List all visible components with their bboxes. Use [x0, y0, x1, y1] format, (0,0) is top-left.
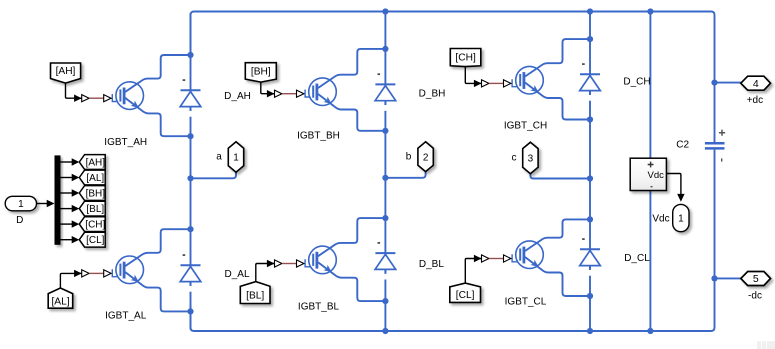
port marker out IGBT_BH [275, 90, 282, 97]
from tag [AH] for IGBT_AH [51, 63, 81, 83]
diode D_AL [180, 255, 201, 292]
svg-text:2: 2 [423, 152, 429, 163]
port marker out IGBT_CL [482, 255, 489, 262]
wire demux to goto [BH] [61, 192, 73, 194]
port 4 +dc [741, 76, 771, 90]
node IGBT_BL emitter junction [382, 298, 388, 304]
arrowhead gate wire IGBT_CH [474, 80, 482, 87]
wire -dc bottom bus and lower right rail [191, 150, 715, 331]
arrowhead demux to goto [BH] [72, 189, 80, 196]
svg-text:[AH]: [AH] [56, 66, 76, 77]
transistor IGBT_AL [112, 256, 143, 285]
arrowhead D to demux [47, 200, 55, 208]
wire phase a to port 1 [191, 171, 237, 178]
arrowhead Vdc output [677, 194, 684, 202]
wire gate red segment IGBT_CL [489, 258, 503, 260]
port marker out IGBT_AL [82, 270, 89, 277]
node top bus cap rail [647, 8, 653, 14]
svg-text:C2: C2 [676, 140, 689, 151]
transistor IGBT_CH [512, 66, 543, 95]
svg-text:D_AL: D_AL [224, 269, 249, 280]
node IGBT_BH collector junction [382, 46, 388, 52]
svg-text:[AH]: [AH] [86, 158, 106, 169]
wire collector of IGBT_AL [125, 229, 190, 266]
port 1 Vdc output [673, 204, 689, 231]
svg-text:b: b [406, 151, 412, 162]
wire demux to goto [BL] [61, 208, 73, 210]
node IGBT_AL collector junction [187, 226, 193, 232]
transistor IGBT_CL [512, 241, 543, 270]
wire emitter of IGBT_BH [318, 94, 385, 131]
voltmeter Vdc [630, 158, 666, 190]
wire phase b to port 2 [385, 171, 425, 178]
svg-text:c: c [512, 153, 517, 164]
svg-text:[AL]: [AL] [51, 297, 69, 308]
wire emitter of IGBT_AL [125, 272, 190, 311]
wire emitter of IGBT_CL [525, 257, 590, 296]
port 1 phase a [228, 142, 243, 172]
wire +dc stub to port 4 [715, 82, 742, 84]
svg-text:[CH]: [CH] [85, 220, 105, 231]
wire collector of IGBT_CH [525, 39, 590, 76]
wire emitter of IGBT_CH [525, 83, 590, 120]
svg-text:[BH]: [BH] [251, 66, 271, 77]
node IGBT_BH emitter junction [382, 128, 388, 134]
diode D_AH [180, 80, 201, 117]
svg-text:IGBT_BH: IGBT_BH [297, 131, 340, 142]
wire gate signal from [AL] [60, 273, 81, 288]
node top bus phase C [587, 8, 593, 14]
svg-text:D_CL: D_CL [624, 253, 650, 264]
svg-text:5: 5 [753, 273, 759, 285]
arrowhead demux to goto [BL] [72, 205, 80, 212]
svg-text:[BL]: [BL] [246, 291, 264, 302]
svg-text:+dc: +dc [747, 95, 763, 106]
svg-text:Vdc: Vdc [648, 170, 665, 181]
wire collector of IGBT_AH [125, 55, 190, 92]
arrowhead demux to goto [CH] [72, 220, 80, 227]
svg-text:[BL]: [BL] [86, 204, 104, 215]
svg-text:D_CH: D_CH [623, 76, 650, 87]
wire Vdc output [666, 174, 681, 196]
wire -dc stub to port 5 [715, 277, 742, 279]
arrowhead gate wire IGBT_BH [267, 90, 275, 97]
transistor IGBT_AH [112, 82, 143, 111]
node bottom bus cap rail [647, 328, 653, 334]
svg-text:Vdc: Vdc [652, 214, 669, 225]
node IGBT_BL collector junction [382, 215, 388, 221]
svg-text:D: D [16, 215, 23, 226]
diode D_CH [580, 64, 601, 101]
port 5 -dc [741, 272, 771, 286]
port marker gate pin IGBT_BH [297, 90, 304, 97]
from tag [CH] for IGBT_CH [450, 49, 481, 67]
from tag [CL] for IGBT_CL [450, 283, 481, 302]
node top bus phase B [382, 8, 388, 14]
svg-text:IGBT_AH: IGBT_AH [104, 137, 147, 148]
arrowhead demux to goto [CL] [72, 236, 80, 243]
wire demux to goto [CH] [61, 223, 73, 225]
svg-text:1: 1 [233, 153, 239, 164]
wire D to demux [37, 203, 49, 205]
svg-text:D_AH: D_AH [224, 91, 251, 102]
wire gate signal from [CL] [465, 259, 481, 284]
wire emitter of IGBT_AH [125, 98, 190, 136]
goto tag [CH] [79, 217, 105, 232]
port 2 phase b [418, 142, 433, 172]
wire capacitor rail lower [649, 191, 651, 332]
svg-text:[AL]: [AL] [86, 173, 104, 184]
port marker out IGBT_CH [482, 80, 489, 87]
wire +dc top bus and right rail [191, 12, 715, 143]
wire emitter of IGBT_BL [318, 262, 385, 301]
wire capacitor rail upper [649, 12, 651, 159]
svg-text:IGBT_CH: IGBT_CH [504, 120, 547, 131]
svg-text:a: a [216, 152, 222, 163]
port marker out IGBT_BL [275, 260, 282, 267]
from tag [AL] for IGBT_AL [48, 288, 72, 308]
arrowhead gate wire IGBT_BL [267, 260, 275, 267]
svg-text:IGBT_AL: IGBT_AL [105, 311, 147, 322]
watermark [757, 341, 775, 349]
from tag [BL] for IGBT_BL [240, 282, 270, 304]
port marker gate pin IGBT_AL [104, 270, 111, 277]
svg-text:4: 4 [753, 78, 759, 90]
svg-text:[CL]: [CL] [86, 235, 105, 246]
node phase c junction [587, 175, 593, 181]
port 3 phase c [523, 142, 538, 174]
port marker gate pin IGBT_AH [104, 95, 111, 102]
node IGBT_CH collector junction [587, 36, 593, 42]
wire collector of IGBT_BL [318, 218, 385, 256]
port marker out IGBT_AH [82, 95, 89, 102]
diode D_CL [580, 239, 601, 276]
wire collector of IGBT_CL [525, 219, 590, 251]
node IGBT_CL collector junction [587, 216, 593, 222]
node phase a junction [187, 175, 193, 181]
wire gate signal from [BH] [261, 82, 275, 94]
arrowhead gate wire IGBT_AH [74, 95, 82, 102]
wire gate signal from [AH] [66, 83, 82, 98]
goto tag [AL] [79, 170, 105, 185]
node IGBT_CH emitter junction [587, 116, 593, 122]
svg-text:[CH]: [CH] [455, 53, 476, 64]
svg-text:1: 1 [678, 214, 684, 225]
wire gate red segment IGBT_AH [89, 97, 103, 99]
node +dc junction [711, 80, 717, 86]
svg-text:3: 3 [528, 154, 534, 165]
demux [55, 155, 61, 244]
wire demux to goto [CL] [61, 239, 73, 241]
wire phase B leg [384, 12, 386, 332]
node phase b junction [382, 175, 388, 181]
svg-text:D_BH: D_BH [419, 89, 446, 100]
wire collector of IGBT_BH [318, 49, 385, 88]
arrowhead demux to goto [AL] [72, 174, 80, 181]
from tag [BH] for IGBT_BH [245, 63, 276, 82]
svg-text:[CL]: [CL] [456, 290, 475, 301]
arrowhead demux to goto [AH] [72, 158, 80, 165]
svg-text:-dc: -dc [748, 290, 762, 301]
arrowhead gate wire IGBT_AL [74, 270, 82, 277]
arrowhead gate wire IGBT_CL [474, 255, 482, 262]
svg-text:D_BL: D_BL [419, 259, 444, 270]
node IGBT_CL emitter junction [587, 293, 593, 299]
port marker gate pin IGBT_CH [504, 80, 511, 87]
wire phase A leg [190, 13, 192, 330]
wire demux to goto [AL] [61, 177, 73, 179]
transistor IGBT_BL [305, 246, 336, 275]
node IGBT_AH emitter junction [187, 133, 193, 139]
wire phase c to port 3 [530, 173, 590, 179]
svg-text:1: 1 [18, 199, 24, 210]
capacitor C2 [705, 130, 725, 162]
goto tag [BL] [79, 201, 105, 216]
transistor IGBT_BH [305, 78, 336, 107]
port marker gate pin IGBT_BL [297, 260, 304, 267]
node IGBT_AL emitter junction [187, 308, 193, 314]
svg-text:[BH]: [BH] [86, 189, 106, 200]
wire gate red segment IGBT_BL [282, 263, 296, 265]
node IGBT_AH collector junction [187, 52, 193, 58]
wire phase C leg [589, 12, 591, 332]
wire gate red segment IGBT_AL [89, 272, 103, 274]
diode D_BH [375, 74, 396, 111]
node -dc junction [711, 275, 717, 281]
wire gate red segment IGBT_BH [282, 93, 296, 95]
svg-text:IGBT_CL: IGBT_CL [505, 297, 547, 308]
diode D_BL [375, 243, 396, 280]
node bottom bus phase C [587, 328, 593, 334]
wire gate red segment IGBT_CH [489, 82, 503, 84]
svg-text:IGBT_BL: IGBT_BL [298, 302, 340, 313]
goto tag [AH] [79, 155, 105, 170]
goto tag [BH] [79, 186, 105, 201]
wire gate signal from [BL] [256, 264, 275, 282]
wire gate signal from [CH] [465, 67, 481, 84]
port marker gate pin IGBT_CL [504, 255, 511, 262]
wire demux to goto [AH] [61, 161, 73, 163]
port 1 input D [5, 196, 36, 211]
node bottom bus phase B [382, 328, 388, 334]
goto tag [CL] [79, 232, 105, 247]
